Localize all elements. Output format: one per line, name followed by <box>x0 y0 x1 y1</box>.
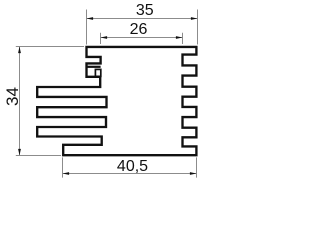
clip groove ledge line <box>87 66 101 68</box>
heatsink body outline <box>37 47 196 155</box>
dimension 35 (top) <box>87 10 198 45</box>
dimension 40,5 (bottom) <box>63 157 197 177</box>
dimension 34 (left, vertical) <box>16 47 84 156</box>
svg-text:40,5: 40,5 <box>117 158 148 175</box>
internal screw channel <box>95 69 100 76</box>
svg-text:34: 34 <box>3 87 22 106</box>
svg-text:26: 26 <box>130 21 148 38</box>
svg-text:35: 35 <box>136 2 154 19</box>
dimension 26 <box>101 33 183 44</box>
